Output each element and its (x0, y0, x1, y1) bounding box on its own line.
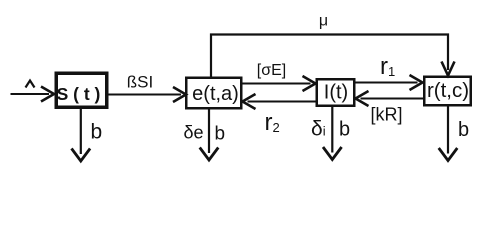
svg-text:δi: δi (311, 118, 326, 141)
svg-text:b: b (339, 119, 350, 141)
svg-text:b: b (215, 124, 226, 145)
svg-text:δe: δe (184, 123, 204, 143)
svg-text:I(t): I(t) (324, 82, 348, 104)
svg-text:e(t,a): e(t,a) (192, 83, 239, 105)
svg-text:μ: μ (319, 13, 328, 30)
svg-text:[kR]: [kR] (370, 104, 402, 124)
svg-text:b: b (91, 120, 103, 143)
svg-text:r2: r2 (265, 109, 280, 136)
svg-text:ßSI: ßSI (127, 73, 153, 92)
svg-text:[σE]: [σE] (257, 62, 286, 79)
svg-text:b: b (458, 119, 469, 141)
svg-text:r1: r1 (380, 53, 395, 80)
svg-text:S ( t ): S ( t ) (57, 84, 101, 104)
svg-text:r(t,c): r(t,c) (427, 79, 469, 102)
